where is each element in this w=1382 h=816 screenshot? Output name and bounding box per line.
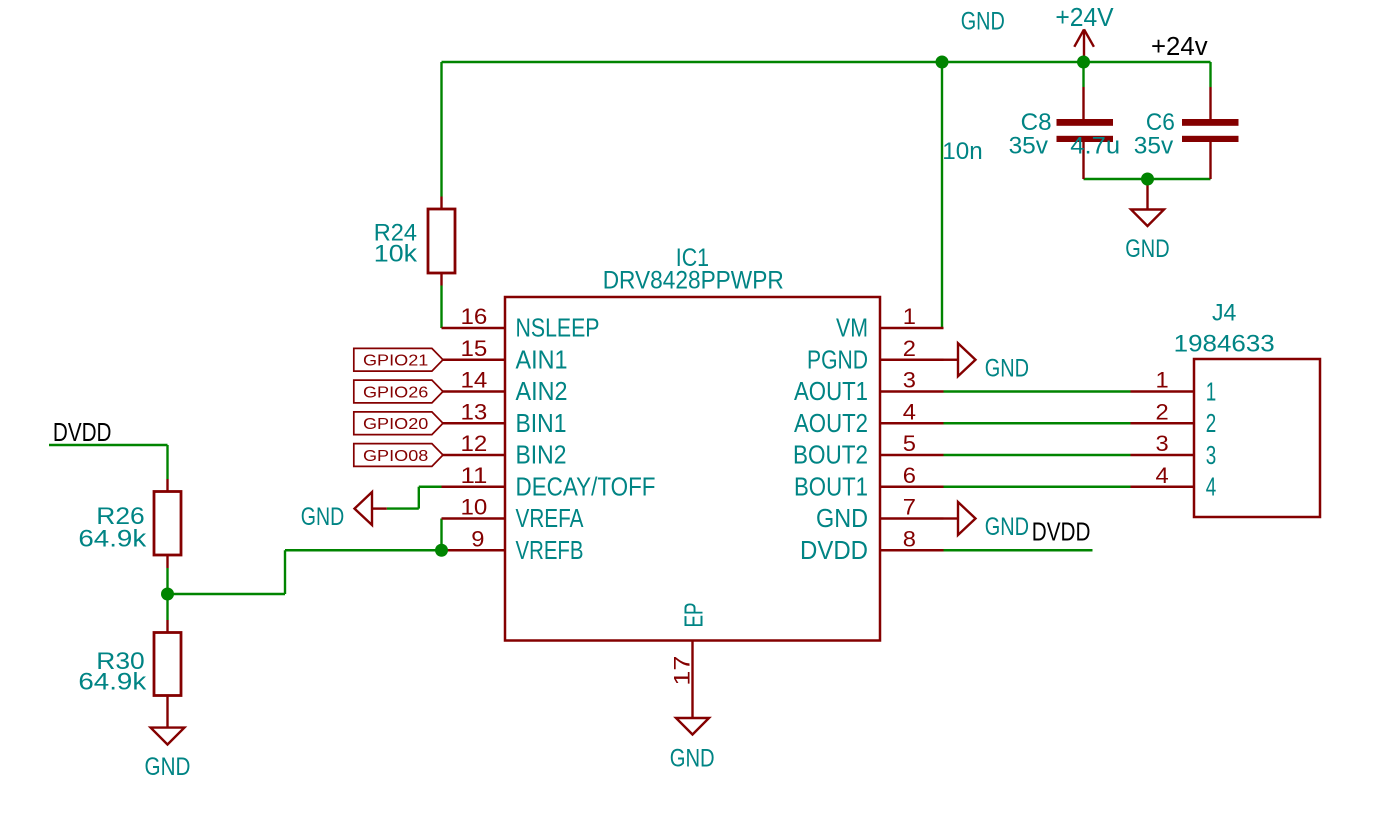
svg-text:12: 12 xyxy=(461,431,488,456)
svg-text:EP: EP xyxy=(679,603,709,628)
svg-text:6: 6 xyxy=(903,463,916,488)
svg-text:VREFA: VREFA xyxy=(516,503,585,533)
svg-text:10k: 10k xyxy=(374,241,418,268)
svg-text:DECAY/TOFF: DECAY/TOFF xyxy=(516,471,656,501)
svg-text:AOUT1: AOUT1 xyxy=(794,376,868,406)
svg-text:1: 1 xyxy=(1206,376,1217,406)
svg-text:9: 9 xyxy=(471,526,484,551)
svg-text:2: 2 xyxy=(903,336,916,361)
svg-text:DVDD: DVDD xyxy=(53,419,112,447)
svg-text:10n: 10n xyxy=(942,138,982,165)
svg-text:BOUT1: BOUT1 xyxy=(794,471,868,501)
svg-text:NSLEEP: NSLEEP xyxy=(516,313,600,343)
svg-text:AIN2: AIN2 xyxy=(516,376,568,406)
svg-text:7: 7 xyxy=(903,495,916,520)
svg-text:GPIO26: GPIO26 xyxy=(363,384,428,401)
svg-text:GPIO20: GPIO20 xyxy=(363,416,428,433)
svg-text:+24V: +24V xyxy=(1055,2,1114,32)
svg-text:BIN1: BIN1 xyxy=(516,408,567,438)
svg-text:1: 1 xyxy=(1156,368,1169,393)
svg-text:DVDD: DVDD xyxy=(1032,519,1091,547)
svg-text:35v: 35v xyxy=(1134,133,1173,160)
svg-text:GPIO08: GPIO08 xyxy=(363,448,428,465)
svg-text:GPIO21: GPIO21 xyxy=(363,353,428,370)
svg-text:GND: GND xyxy=(816,503,868,533)
svg-text:GND: GND xyxy=(670,745,715,773)
svg-text:BIN2: BIN2 xyxy=(516,440,567,470)
svg-text:64.9k: 64.9k xyxy=(78,669,147,696)
svg-text:11: 11 xyxy=(461,463,488,488)
svg-text:1984633: 1984633 xyxy=(1174,330,1275,357)
svg-text:3: 3 xyxy=(1156,431,1169,456)
svg-text:GND: GND xyxy=(985,354,1029,382)
svg-text:4: 4 xyxy=(1206,472,1217,502)
svg-text:1: 1 xyxy=(903,304,916,329)
svg-text:5: 5 xyxy=(903,431,916,456)
svg-text:14: 14 xyxy=(461,368,488,393)
svg-text:16: 16 xyxy=(461,304,488,329)
svg-text:AOUT2: AOUT2 xyxy=(794,408,868,438)
svg-text:4: 4 xyxy=(903,399,916,424)
svg-text:13: 13 xyxy=(461,399,488,424)
svg-text:2: 2 xyxy=(1156,399,1169,424)
svg-text:BOUT2: BOUT2 xyxy=(793,440,868,470)
svg-text:2: 2 xyxy=(1206,408,1217,438)
svg-text:+24v: +24v xyxy=(1151,33,1208,61)
svg-text:GND: GND xyxy=(145,753,191,781)
svg-text:10: 10 xyxy=(461,495,488,520)
svg-text:VREFB: VREFB xyxy=(516,535,584,565)
svg-text:3: 3 xyxy=(903,368,916,393)
svg-text:3: 3 xyxy=(1206,440,1217,470)
svg-text:15: 15 xyxy=(461,336,488,361)
svg-text:4: 4 xyxy=(1156,463,1169,488)
svg-text:GND: GND xyxy=(301,503,344,531)
svg-text:35v: 35v xyxy=(1009,133,1048,160)
svg-text:PGND: PGND xyxy=(807,344,868,374)
svg-text:8: 8 xyxy=(903,526,916,551)
svg-text:17: 17 xyxy=(669,656,694,686)
svg-text:64.9k: 64.9k xyxy=(78,526,147,553)
svg-text:GND: GND xyxy=(1125,235,1169,263)
svg-text:AIN1: AIN1 xyxy=(516,344,568,374)
svg-text:DRV8428PPWPR: DRV8428PPWPR xyxy=(603,267,784,295)
svg-text:J4: J4 xyxy=(1212,300,1236,327)
svg-text:VM: VM xyxy=(836,313,868,343)
svg-text:4.7u: 4.7u xyxy=(1070,133,1120,160)
svg-text:GND: GND xyxy=(961,7,1005,35)
svg-text:GND: GND xyxy=(985,513,1029,541)
svg-text:DVDD: DVDD xyxy=(800,535,868,565)
